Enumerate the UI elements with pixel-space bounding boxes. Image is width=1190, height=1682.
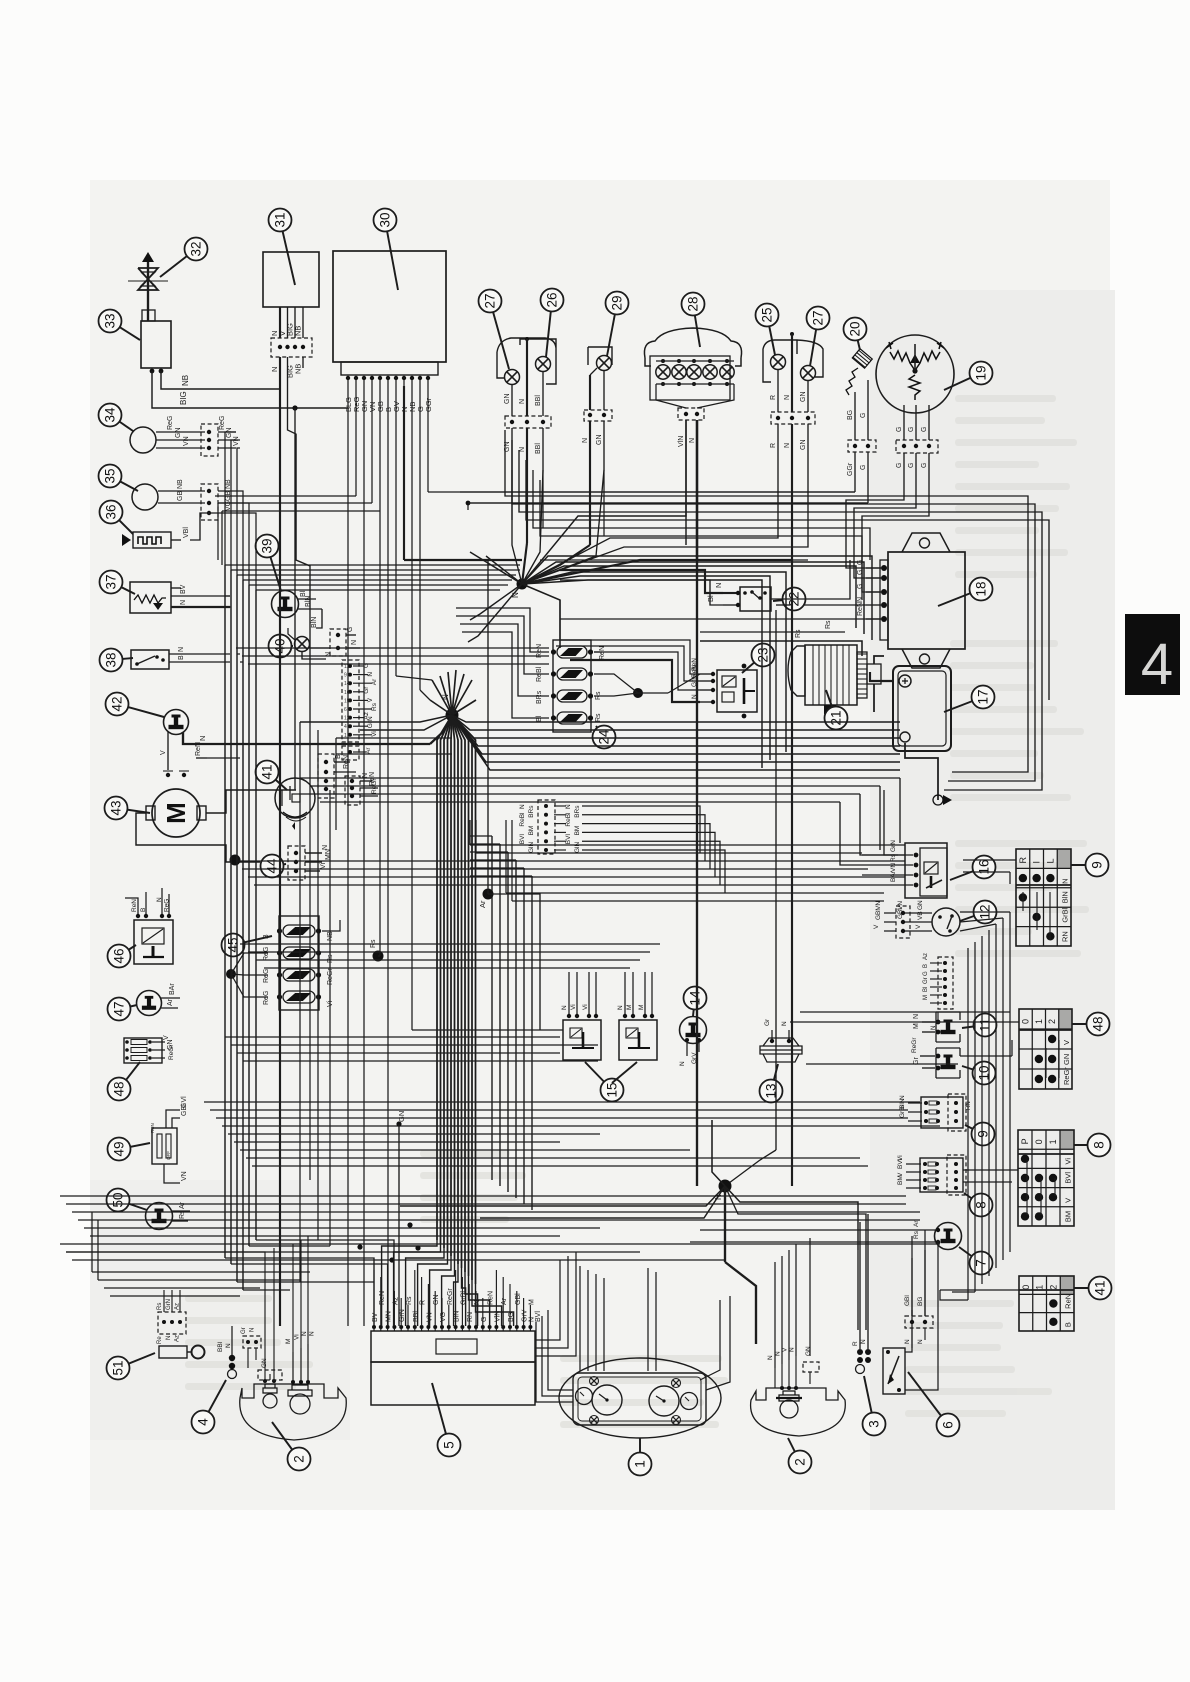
node 13 callout [771, 1064, 778, 1091]
svg-text:43: 43 [109, 800, 124, 815]
cluster right feeders [647, 1268, 649, 1371]
node 20 callout [855, 329, 860, 350]
horizontals under 48 to relays 15 [225, 1036, 560, 1038]
node 17 callout [944, 697, 983, 712]
svg-text:N: N [250, 1328, 256, 1332]
node 48 callout [119, 1062, 140, 1089]
svg-text:N: N [784, 443, 791, 448]
svg-text:L: L [1045, 859, 1055, 864]
svg-text:8: 8 [1092, 1141, 1107, 1149]
svg-text:GrBl: GrBl [899, 1104, 906, 1118]
alternator wire drops [846, 470, 904, 568]
svg-text:BRs: BRs [536, 690, 543, 704]
lower wide band B [60, 1195, 906, 1197]
svg-text:21: 21 [829, 710, 844, 725]
svg-text:Az: Az [923, 953, 929, 960]
svg-text:N: N [689, 438, 696, 443]
node 18 callout [938, 589, 981, 606]
svg-text:Bl: Bl [536, 715, 543, 722]
wires from mid connector to right [582, 806, 700, 853]
svg-text:G: G [908, 463, 915, 468]
verticals from CDI 31 [279, 357, 281, 1326]
svg-text:Vi: Vi [294, 1334, 301, 1340]
horizontals into star A left [215, 495, 356, 497]
svg-text:ReG: ReG [219, 416, 226, 430]
svg-text:23: 23 [756, 647, 771, 662]
node 51 callout [118, 1353, 155, 1368]
node 3 callout [864, 1376, 874, 1424]
table 48 connect lines [1045, 1048, 1047, 1078]
star A rays [522, 556, 872, 640]
fuse 24 wires [633, 688, 643, 698]
node 29 callout [607, 303, 617, 356]
wires above lamp 2L [66, 1252, 265, 1360]
svg-text:BG: BG [917, 1297, 924, 1306]
svg-text:GN: GN [397, 1111, 406, 1122]
svg-text:N: N [904, 1339, 911, 1344]
bundle 30 elbows [428, 491, 855, 493]
svg-text:N: N [519, 399, 526, 404]
svg-text:P: P [1020, 1138, 1030, 1144]
svg-text:Ar: Ar [501, 1297, 508, 1305]
starter relay 22 [740, 587, 771, 611]
svg-text:32: 32 [189, 241, 204, 256]
switch 12 wires [905, 912, 932, 914]
svg-text:G: G [923, 971, 929, 976]
svg-text:ReG: ReG [263, 969, 270, 983]
node 9 callout [1071, 864, 1097, 866]
headlamp bulbs [656, 365, 670, 379]
svg-text:N: N [225, 1343, 232, 1348]
earth 10 [936, 1048, 960, 1078]
bundle verticals from unit 30 [347, 386, 349, 1326]
svg-text:ReN: ReN [599, 646, 606, 660]
svg-text:28: 28 [686, 296, 701, 311]
ignition switch 41 [275, 778, 315, 818]
lamp 2L bulb big [290, 1394, 310, 1414]
sensor 34 [130, 427, 156, 453]
svg-text:BVl: BVl [535, 1311, 542, 1322]
svg-text:G: G [896, 463, 903, 468]
flasher relay 16 [905, 843, 947, 898]
headlamp assembly 2 left [240, 1384, 347, 1440]
svg-text:ReGr: ReGr [911, 1037, 918, 1053]
switch table 9 [1057, 849, 1071, 868]
thick N bus link to star B [430, 715, 452, 744]
svg-text:RN: RN [966, 1101, 972, 1110]
cluster 28 wires [656, 384, 686, 408]
svg-text:9: 9 [976, 1130, 991, 1138]
svg-text:2: 2 [292, 1455, 307, 1463]
svg-text:BlN: BlN [305, 596, 312, 607]
svg-text:NB: NB [294, 326, 303, 336]
svg-text:Rs: Rs [913, 1230, 920, 1239]
right nest stub [960, 660, 992, 700]
right drops from band [899, 778, 901, 843]
final assorted right wires [884, 790, 905, 855]
relay 16 wires [862, 854, 898, 856]
left risers from components [225, 595, 230, 597]
node 41 callout [1074, 1287, 1100, 1289]
warning lamp 40 [295, 637, 310, 652]
svg-text:N: N [561, 1005, 568, 1010]
lamp 25 bulb [771, 355, 786, 370]
svg-text:I: I [1032, 861, 1042, 864]
svg-text:3: 3 [867, 1420, 882, 1428]
svg-text:12: 12 [344, 716, 350, 722]
earth 7 [935, 1223, 962, 1250]
svg-text:27: 27 [483, 293, 498, 308]
vertical through relays [775, 610, 777, 1150]
node 33 callout [110, 321, 140, 340]
regulator pins [881, 565, 887, 571]
svg-text:BIG: BIG [179, 391, 188, 405]
svg-text:Rs: Rs [179, 1210, 186, 1219]
svg-text:ReN: ReN [195, 742, 202, 756]
sensor 35 wires [158, 490, 205, 492]
wire BIG from coil 33 [152, 371, 348, 408]
svg-text:17: 17 [976, 689, 991, 704]
indicator lamps 25-27 bracket [763, 340, 823, 382]
brake switch 3 [857, 1349, 863, 1355]
node 48 callout [1072, 1023, 1098, 1025]
svg-text:29: 29 [610, 295, 625, 310]
svg-text:15: 15 [344, 698, 350, 704]
svg-text:R: R [852, 1341, 859, 1346]
svg-text:BM: BM [528, 826, 535, 836]
battery 17 [893, 666, 951, 751]
svg-text:BlN: BlN [454, 1311, 461, 1322]
stop switch 38 [131, 650, 169, 669]
svg-text:2: 2 [793, 1458, 808, 1466]
svg-text:N: N [714, 583, 723, 588]
ECU right side wires [535, 1310, 560, 1340]
junction star A [517, 579, 528, 590]
svg-text:24: 24 [597, 729, 612, 745]
node 8 callout [964, 1193, 981, 1205]
earth 11 [936, 1012, 960, 1042]
lamps 25-27 wires [790, 332, 794, 336]
svg-text:11: 11 [978, 1018, 993, 1032]
junction Rs [373, 951, 384, 962]
svg-text:ReG: ReG [167, 416, 174, 430]
mid horizontals 520-560 [533, 470, 870, 560]
svg-text:G: G [860, 413, 867, 418]
svg-text:BM: BM [897, 1175, 904, 1185]
svg-text:Vi: Vi [320, 862, 327, 869]
misc junction dots [407, 1222, 412, 1227]
svg-text:R: R [1018, 857, 1028, 864]
svg-text:VBl: VBl [183, 527, 190, 538]
connector block 9 [921, 1097, 963, 1128]
wires to lamp 2R [774, 1262, 776, 1368]
relay 15b [619, 1020, 657, 1060]
svg-text:GN: GN [800, 440, 807, 451]
svg-text:B: B [178, 655, 185, 660]
scan background [90, 180, 1110, 1510]
starter cable [874, 656, 884, 664]
connector 44 [288, 846, 305, 880]
svg-text:Ar: Ar [478, 900, 487, 908]
svg-text:BBl: BBl [217, 1341, 224, 1352]
svg-text:N: N [178, 647, 185, 652]
svg-text:RUN: RUN [150, 1123, 155, 1133]
svg-text:GN: GN [1062, 1054, 1071, 1065]
tail lamp assembly 2 right [751, 1388, 846, 1436]
node N bottom [719, 1180, 732, 1193]
switch 49 wires [166, 1110, 180, 1128]
lamp 2R bulb [780, 1400, 798, 1418]
relay 46 wires [125, 898, 138, 914]
svg-text:BVl: BVl [897, 1158, 904, 1169]
switch table 8 [1060, 1130, 1074, 1149]
lower left corner extras [92, 1271, 310, 1273]
run-off switch 49 [152, 1128, 177, 1164]
svg-text:M: M [285, 1339, 292, 1344]
svg-text:1: 1 [1035, 1285, 1045, 1290]
svg-text:V: V [160, 750, 167, 755]
svg-text:GB: GB [177, 491, 184, 501]
svg-text:V: V [873, 924, 880, 929]
resistor 20 wires [854, 392, 856, 440]
svg-text:R: R [420, 1300, 427, 1305]
svg-text:30: 30 [378, 212, 393, 227]
node 12 callout [960, 912, 985, 921]
node 38 callout [111, 658, 133, 660]
lamp 2L wires [258, 1370, 282, 1380]
svg-text:ReGr: ReGr [447, 1288, 454, 1305]
svg-text:V: V [1064, 1198, 1073, 1203]
multi connector center [342, 660, 359, 742]
node N rays [724, 1186, 726, 1262]
left spine top elbows [225, 564, 520, 566]
solenoid 23 pins [711, 672, 715, 676]
svg-text:49: 49 [112, 1141, 127, 1156]
lamp 27b bulb [801, 366, 816, 381]
svg-text:RN: RN [1061, 931, 1070, 942]
node 47 callout [119, 1005, 137, 1009]
node 21 callout [826, 690, 836, 718]
svg-text:MN: MN [325, 849, 332, 860]
svg-text:GrBl: GrBl [460, 1291, 467, 1305]
svg-text:Ar: Ar [371, 678, 378, 685]
GN junction [396, 1121, 401, 1126]
svg-text:GBl: GBl [515, 1293, 522, 1305]
svg-text:ReN: ReN [343, 755, 350, 769]
svg-text:G: G [857, 584, 864, 589]
Rs wires to solenoid [700, 641, 862, 656]
starter motor 21 [788, 646, 805, 696]
svg-text:ReN: ReN [1064, 1294, 1073, 1309]
junction star B [446, 709, 459, 722]
svg-text:Rs: Rs [795, 629, 802, 638]
chapter tab 4 [1125, 614, 1180, 695]
svg-text:ReN: ReN [131, 899, 138, 912]
svg-text:GrBl: GrBl [1061, 907, 1070, 922]
junction dot on spine [230, 855, 241, 866]
svg-text:Bl: Bl [923, 987, 929, 992]
node 36 callout [111, 512, 133, 534]
long verticals indicators [522, 424, 778, 584]
svg-text:BVl: BVl [519, 834, 526, 845]
node 45 callout [233, 936, 272, 945]
svg-text:0: 0 [1021, 1285, 1031, 1290]
svg-text:ReBl: ReBl [519, 812, 526, 827]
svg-text:G: G [896, 427, 903, 432]
svg-text:G: G [860, 465, 867, 470]
sensor 35 [132, 484, 158, 510]
svg-text:ReG: ReG [263, 991, 270, 1005]
svg-text:NB: NB [294, 364, 303, 374]
assorted mid-left risers [299, 722, 301, 1282]
ghost bleed-through text [185, 395, 1089, 1428]
resistor 20 [852, 349, 872, 368]
svg-text:N: N [767, 1355, 774, 1360]
node 49 callout [119, 1143, 150, 1149]
svg-text:0: 0 [1021, 1019, 1031, 1024]
node 46 callout [119, 945, 136, 956]
svg-text:R: R [770, 395, 777, 400]
node 37 callout [111, 582, 135, 594]
svg-text:M: M [638, 1005, 645, 1010]
star B top rays [432, 680, 452, 715]
svg-text:BG: BG [847, 410, 854, 420]
svg-text:M: M [161, 802, 191, 824]
motor 43 wires [206, 790, 296, 813]
svg-text:N: N [351, 640, 358, 645]
svg-text:M: M [913, 1023, 920, 1029]
svg-text:42: 42 [110, 696, 125, 711]
svg-text:VlN: VlN [678, 436, 685, 447]
lamp 40 wires [288, 628, 295, 640]
svg-text:Ar: Ar [913, 1220, 920, 1227]
svg-text:N: N [857, 597, 864, 602]
svg-text:GN: GN [175, 428, 182, 439]
clutch switch 51 [159, 1346, 187, 1358]
node 27 callout [810, 318, 818, 366]
svg-text:GN: GN [800, 392, 807, 403]
right column verticals [967, 948, 969, 1300]
instrument cluster 1 [559, 1358, 721, 1438]
svg-text:Rs: Rs [825, 620, 832, 629]
lamp 2L bulb small [263, 1394, 277, 1408]
svg-text:N: N [362, 773, 369, 778]
svg-text:4: 4 [196, 1418, 211, 1426]
relay 22 wires [723, 592, 737, 594]
svg-text:20: 20 [848, 321, 863, 336]
svg-text:MN: MN [386, 1311, 393, 1322]
battery earth symbol [933, 795, 943, 805]
svg-text:1: 1 [1048, 1139, 1058, 1144]
svg-text:ReN: ReN [857, 602, 864, 616]
svg-text:GN: GN [805, 1346, 812, 1356]
svg-text:NB: NB [181, 375, 190, 386]
svg-text:V: V [367, 697, 374, 702]
svg-text:48: 48 [1091, 1016, 1106, 1031]
svg-text:51: 51 [111, 1360, 126, 1375]
connector right of 41 [318, 754, 334, 798]
node 40 callout [280, 645, 293, 647]
svg-text:5: 5 [442, 1441, 457, 1449]
svg-text:G: G [481, 1317, 488, 1322]
front position lamps bracket 26-27 [497, 338, 556, 384]
svg-text:GrN: GrN [890, 840, 897, 852]
table 9 connect lines [1022, 892, 1024, 911]
svg-text:7: 7 [974, 1259, 989, 1267]
svg-text:Vi: Vi [570, 1004, 577, 1010]
svg-text:35: 35 [103, 468, 118, 483]
node 9 callout [965, 1125, 983, 1134]
svg-text:N: N [679, 1061, 686, 1066]
svg-text:BVl: BVl [1064, 1172, 1073, 1184]
node 30 callout [385, 220, 398, 290]
svg-text:4: 4 [344, 724, 347, 730]
svg-text:N: N [784, 395, 791, 400]
switch 6 wires [905, 1310, 912, 1352]
links blocks to tables [963, 859, 1016, 861]
svg-text:N: N [519, 804, 526, 809]
box 37 wires [171, 587, 181, 589]
svg-text:N: N [367, 672, 374, 677]
node 4 callout [203, 1380, 226, 1422]
node 7 callout [959, 1247, 981, 1263]
resistor box 37 [130, 582, 171, 613]
svg-text:39: 39 [260, 538, 275, 553]
svg-text:GBl: GBl [904, 1295, 911, 1306]
svg-text:15: 15 [605, 1082, 620, 1097]
svg-text:0: 0 [1034, 1139, 1044, 1144]
node 41 callout [267, 772, 287, 790]
svg-text:GN: GN [917, 900, 924, 910]
svg-text:2: 2 [1048, 1285, 1058, 1290]
svg-text:VN: VN [890, 863, 897, 872]
connector stack below 12 [938, 957, 953, 1009]
horizontal pair GGr G long [460, 491, 855, 493]
node 19 callout [944, 373, 981, 390]
fuse row right of 24 area [456, 608, 549, 652]
svg-text:BBl: BBl [413, 1311, 420, 1322]
svg-text:BRs: BRs [574, 805, 581, 818]
earth 39 [272, 591, 299, 618]
vertical bundle center-bottom to ECU [382, 1240, 437, 1326]
CDI 31 pins [279, 307, 281, 338]
lamp 27 bulb [505, 370, 520, 385]
gauge small left [576, 1388, 593, 1405]
node 27 callout [490, 301, 509, 369]
node 26 callout [546, 300, 552, 357]
switch table 48 [1059, 1009, 1072, 1029]
svg-text:19: 19 [974, 365, 989, 380]
lower wide band A [204, 1101, 920, 1103]
feeder horizontals above relays 15 [240, 943, 660, 945]
ignition 30 pins [346, 376, 350, 380]
svg-text:N: N [617, 1005, 624, 1010]
svg-text:BlN: BlN [311, 617, 318, 628]
svg-text:V: V [1062, 1040, 1071, 1045]
svg-text:50: 50 [111, 1192, 126, 1207]
left spine bottom elbows [225, 1257, 340, 1259]
lamp 29 wires [590, 368, 597, 375]
svg-text:8: 8 [974, 1201, 989, 1209]
connector above 6 [905, 1316, 933, 1328]
svg-text:GN: GN [433, 1295, 440, 1306]
rear switch 6 [883, 1348, 905, 1394]
svg-text:VN: VN [181, 1171, 188, 1181]
svg-text:BBl: BBl [535, 395, 542, 406]
svg-text:33: 33 [103, 313, 118, 328]
svg-text:47: 47 [112, 1001, 127, 1016]
switch 38 wires [169, 653, 230, 655]
